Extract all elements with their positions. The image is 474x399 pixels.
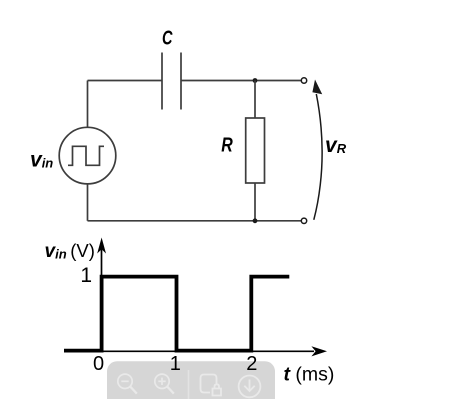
terminal bottom open circle bbox=[301, 218, 306, 223]
capacitor C1 right plate bbox=[180, 53, 182, 110]
svg-text:0: 0 bbox=[93, 353, 104, 375]
vR arrowhead bbox=[312, 80, 322, 95]
square wave trace bbox=[64, 277, 289, 351]
source V1 circle bbox=[59, 127, 116, 184]
svg-text:C: C bbox=[162, 28, 173, 50]
wire left vertical top bbox=[87, 81, 89, 128]
toolbar download icon bbox=[239, 376, 261, 398]
toolbar zoom-out icon bbox=[118, 374, 137, 394]
junction node top bbox=[253, 78, 258, 83]
terminal top open circle bbox=[301, 78, 306, 83]
wire top left segment bbox=[88, 80, 163, 82]
wire resistor top bbox=[254, 81, 256, 119]
svg-text:1: 1 bbox=[80, 264, 92, 287]
resistor R1 body bbox=[246, 118, 265, 183]
svg-text:(V): (V) bbox=[70, 240, 95, 261]
svg-text:2: 2 bbox=[246, 353, 257, 375]
wire bottom bbox=[88, 220, 302, 222]
svg-text:t (ms): t (ms) bbox=[284, 364, 335, 386]
svg-text:R: R bbox=[221, 135, 233, 157]
capacitor C1 left plate bbox=[161, 53, 163, 110]
source V1 square-wave glyph bbox=[68, 146, 104, 165]
svg-text:1: 1 bbox=[170, 353, 181, 375]
vR arc arrow bbox=[314, 94, 322, 220]
junction node bottom bbox=[253, 218, 258, 223]
toolbar separator bbox=[188, 370, 190, 399]
wire top right segment bbox=[181, 80, 302, 82]
wire resistor bottom bbox=[254, 183, 256, 221]
toolbar background bbox=[107, 361, 275, 399]
toolbar reset-lock icon bbox=[201, 375, 222, 396]
wire left vertical bottom bbox=[87, 184, 89, 221]
graph x-axis arrowhead bbox=[311, 346, 327, 356]
graph y-axis arrowhead bbox=[97, 238, 106, 254]
toolbar zoom-in icon bbox=[155, 374, 174, 394]
graph y-axis bbox=[101, 247, 103, 351]
graph x-axis bbox=[64, 350, 314, 352]
